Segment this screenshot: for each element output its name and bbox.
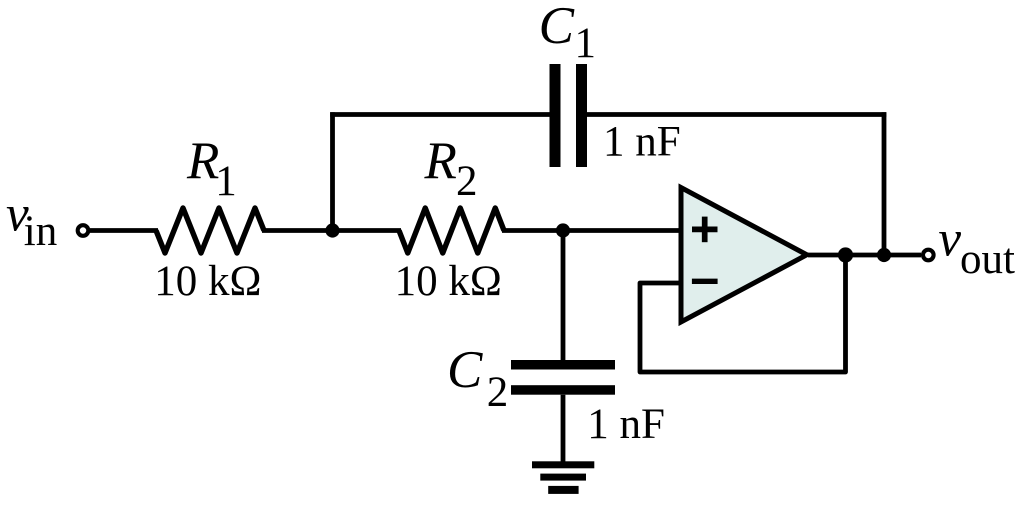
svg-text:in: in — [24, 208, 57, 255]
svg-text:1: 1 — [575, 20, 597, 67]
svg-text:R: R — [424, 132, 457, 190]
svg-text:10 kΩ: 10 kΩ — [154, 258, 261, 305]
svg-text:1 nF: 1 nF — [587, 401, 665, 448]
svg-text:1: 1 — [215, 158, 237, 205]
svg-text:out: out — [960, 236, 1015, 283]
svg-text:10 kΩ: 10 kΩ — [395, 258, 502, 305]
svg-text:2: 2 — [456, 158, 478, 205]
svg-text:C: C — [539, 0, 575, 55]
svg-text:2: 2 — [487, 369, 509, 416]
svg-text:1 nF: 1 nF — [603, 119, 681, 166]
svg-text:v: v — [938, 212, 961, 268]
svg-text:C: C — [447, 341, 483, 399]
